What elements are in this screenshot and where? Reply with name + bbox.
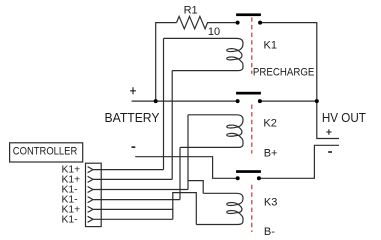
svg-text:BATTERY: BATTERY [105, 111, 161, 125]
svg-text:B+: B+ [264, 147, 278, 159]
svg-text:K3: K3 [264, 196, 277, 208]
svg-text:PRECHARGE: PRECHARGE [253, 66, 315, 78]
svg-text:R1: R1 [184, 5, 198, 17]
svg-text:B-: B- [264, 226, 275, 238]
svg-text:K1-: K1- [62, 214, 78, 225]
svg-text:K2: K2 [263, 117, 276, 129]
svg-text:K1: K1 [264, 39, 277, 51]
svg-text:10: 10 [208, 26, 220, 38]
svg-text:CONTROLLER: CONTROLLER [13, 146, 78, 158]
svg-text:HV OUT: HV OUT [322, 111, 366, 125]
